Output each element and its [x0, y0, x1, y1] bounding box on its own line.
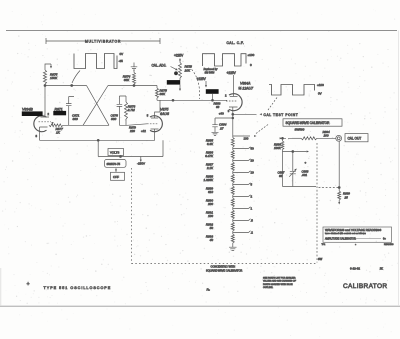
resistor R892 50	[206, 221, 234, 233]
svg-text:100: 100	[324, 134, 329, 138]
svg-text:0V: 0V	[120, 52, 124, 56]
wire left plate rail	[45, 86, 87, 112]
capacitor C888 variable	[278, 152, 309, 187]
svg-text:READING: READING	[384, 243, 394, 246]
cross-coupling diagonal 2	[83, 86, 108, 126]
+225V plate supply V884	[227, 71, 237, 97]
svg-text:40: 40	[210, 238, 214, 242]
svg-text:20: 20	[251, 159, 255, 163]
svg-text:33K: 33K	[160, 92, 166, 96]
resistor R888 1.025K	[203, 173, 234, 185]
svg-text:OUTLINE.: OUTLINE.	[263, 287, 273, 289]
svg-text:SW: SW	[318, 257, 323, 261]
svg-text:6AU6: 6AU6	[160, 112, 169, 116]
tap .2	[233, 231, 254, 235]
+225V supply node	[197, 77, 208, 88]
resistor R875 150K	[43, 64, 58, 86]
svg-text:5: 5	[251, 183, 253, 187]
svg-text:.5: .5	[251, 219, 254, 223]
svg-text:68: 68	[216, 105, 220, 109]
resistor R889 610	[206, 185, 234, 197]
resistor R886 6.47K	[205, 149, 234, 161]
tube V875 6AU6	[147, 100, 163, 140]
svg-text:2.1K: 2.1K	[206, 166, 214, 170]
svg-text:330: 330	[111, 117, 116, 121]
svg-text:6-13-62: 6-13-62	[350, 267, 360, 271]
resistor R878 33K	[156, 86, 168, 101]
divider top wire	[232, 114, 234, 136]
svg-text:5: 5	[147, 113, 149, 117]
dashed leader W3	[268, 98, 277, 111]
svg-text:+100: +100	[248, 53, 255, 57]
svg-text:TP1: TP1	[322, 244, 327, 246]
svg-text:6.3K: 6.3K	[207, 142, 214, 146]
svg-text:SQUARE-WAVE CALIBRATOR: SQUARE-WAVE CALIBRATOR	[206, 268, 242, 272]
OFF box	[111, 168, 125, 180]
wire right plate rail	[108, 85, 157, 87]
svg-text:+: +	[355, 244, 357, 246]
svg-text:MULTIVIBRATOR: MULTIVIBRATOR	[85, 40, 121, 44]
redaction bar A	[22, 111, 43, 116]
svg-text:50: 50	[210, 226, 214, 230]
svg-text:27: 27	[219, 126, 224, 130]
svg-text:1: 1	[251, 207, 253, 211]
svg-text:50: 50	[251, 147, 255, 151]
junction dots	[44, 85, 135, 87]
svg-text:-85: -85	[119, 59, 124, 63]
svg-text:25: 25	[344, 195, 349, 199]
dashed ganged linkage vertical	[131, 168, 133, 264]
wire with wiper arrow	[283, 150, 310, 152]
svg-text:V884A: V884A	[240, 82, 251, 86]
svg-text:8: 8	[36, 134, 38, 138]
ground near W1	[131, 63, 138, 71]
svg-text:+225V: +225V	[174, 54, 184, 58]
dashed shield right edge	[316, 143, 318, 263]
svg-text:+225V: +225V	[227, 71, 237, 75]
svg-text:V834B: V834B	[22, 108, 33, 112]
SW870-75 box	[105, 160, 127, 168]
resistor R894 100	[292, 130, 336, 140]
resistor R891 100	[206, 209, 234, 221]
leader arrow from W1 to wire	[72, 71, 80, 87]
svg-text:100K: 100K	[274, 146, 282, 150]
svg-text:CONCENTRIC WITH: CONCENTRIC WITH	[211, 265, 236, 269]
svg-text:OFF: OFF	[113, 175, 119, 179]
shield bottom wire	[283, 186, 317, 188]
svg-text:0+: 0+	[383, 237, 386, 240]
svg-text:+225V: +225V	[197, 77, 207, 81]
tap 1	[233, 207, 253, 211]
potentiometer R876 10K CAL ADJ	[152, 63, 193, 79]
svg-text:220: 220	[129, 129, 135, 133]
waveform W3 cal test	[269, 83, 324, 95]
svg-text:SW890: SW890	[295, 127, 305, 131]
svg-text:PARTS MARKED WITH BLUE: PARTS MARKED WITH BLUE	[263, 283, 293, 286]
svg-text:CAL. C.F.: CAL. C.F.	[227, 41, 245, 45]
svg-text:.2: .2	[251, 231, 254, 235]
tap 50	[233, 147, 254, 151]
svg-text:+: +	[305, 160, 307, 164]
top page rule	[6, 30, 397, 32]
svg-text:SEE PARTS LIST FOR EARLIER: SEE PARTS LIST FOR EARLIER	[263, 276, 296, 279]
svg-text:SN 5454: SN 5454	[205, 71, 215, 74]
svg-text:+90: +90	[219, 112, 224, 116]
wire multivib output to V884 grid	[157, 99, 227, 101]
+225V supply for pot	[174, 54, 184, 63]
resistor R896 100K	[274, 137, 284, 151]
tube V834B	[34, 111, 54, 140]
multivibrator bracket	[46, 38, 160, 44]
svg-text:CALIBRATOR: CALIBRATOR	[343, 283, 387, 290]
svg-text:68K: 68K	[124, 78, 130, 82]
svg-text:2.7M: 2.7M	[127, 108, 135, 112]
cathode rail drop	[97, 140, 99, 156]
svg-text:100: 100	[244, 137, 249, 141]
svg-text:2: 2	[251, 195, 253, 199]
resistor R877 1K	[49, 124, 63, 134]
svg-text:½ 12AU7: ½ 12AU7	[239, 86, 255, 90]
switch label box SQUARE-WAVE CALIBRATOR	[283, 119, 342, 126]
redaction bar E (R882)	[206, 89, 219, 100]
tap 2	[233, 195, 253, 199]
svg-text:2: 2	[48, 112, 50, 116]
svg-text:2: 2	[225, 93, 227, 97]
redaction bar B	[53, 111, 66, 115]
svg-text:1.025K: 1.025K	[203, 178, 214, 182]
dashed ganged linkage horizontal	[132, 263, 318, 265]
tube V884A	[225, 93, 242, 116]
left page edge	[0, 268, 2, 306]
resistor R885 6.3K	[206, 136, 234, 149]
tap 100 with wiper arrow	[233, 135, 257, 141]
svg-text:+100: +100	[317, 83, 324, 87]
dashed linkage wiper to SW890	[256, 124, 269, 134]
-150V supply arrow	[137, 157, 145, 166]
svg-text:TYPE 551 OSCILLOSCOPE: TYPE 551 OSCILLOSCOPE	[44, 286, 112, 290]
svg-text:WAVEFORMS and VOLTAGE READINGS: WAVEFORMS and VOLTAGE READINGS	[325, 228, 381, 232]
cathode rail wire	[40, 139, 155, 141]
waveform note box	[322, 227, 394, 246]
wire to CAL TEST POINT	[233, 113, 262, 115]
CAL OUT box	[345, 134, 368, 142]
svg-text:SW870-75: SW870-75	[107, 162, 121, 166]
resistor R874 68K	[123, 71, 136, 86]
svg-text:150K: 150K	[50, 76, 58, 80]
svg-text:0: 0	[250, 63, 252, 67]
cross-coupling diagonal 1	[87, 86, 110, 126]
resistor R887 2.1K	[206, 161, 234, 173]
svg-text:VOLTS: VOLTS	[110, 151, 119, 155]
svg-text:CAL OUT: CAL OUT	[348, 136, 362, 140]
svg-text:100: 100	[208, 214, 213, 218]
svg-text:610: 610	[208, 190, 213, 194]
svg-text:6.47K: 6.47K	[205, 154, 214, 158]
svg-text:10K: 10K	[185, 68, 191, 72]
right page edge	[398, 31, 400, 307]
waveform W1 multivibrator output	[74, 52, 123, 69]
capacitor C871 330	[66, 97, 80, 126]
svg-text:0V: 0V	[318, 92, 322, 96]
svg-text:+12: +12	[141, 129, 146, 133]
grid bus wire	[63, 124, 147, 126]
svg-text:VALUES AND S/N CHANGES OF: VALUES AND S/N CHANGES OF	[263, 280, 297, 283]
svg-text:SQUARE-WAVE CALIBRATOR: SQUARE-WAVE CALIBRATOR	[286, 121, 331, 125]
tap 20	[233, 159, 254, 163]
VOLTS box	[108, 149, 124, 156]
svg-text:-150V: -150V	[137, 162, 145, 166]
tap 5	[233, 183, 253, 187]
svg-text:7: 7	[52, 121, 54, 125]
bottom page rule	[0, 305, 400, 307]
svg-text:200: 200	[207, 202, 213, 206]
svg-text:CAL. ADJ.: CAL. ADJ.	[152, 63, 167, 67]
svg-text:1K: 1K	[56, 130, 61, 134]
divider ground	[229, 245, 237, 251]
switch contacts	[280, 137, 292, 139]
svg-text:10: 10	[251, 171, 255, 175]
svg-text:JK: JK	[380, 266, 383, 270]
resistor R890 200	[206, 197, 234, 209]
svg-text:330: 330	[73, 117, 78, 121]
waveform W2 cal cf	[203, 53, 255, 67]
svg-text:Rₙ: Rₙ	[207, 288, 211, 292]
switch wire	[98, 140, 163, 156]
connector jack CAL OUT	[336, 135, 342, 141]
resistor R899	[338, 141, 351, 204]
svg-text:68: 68	[279, 174, 283, 178]
tap 10	[233, 171, 254, 175]
dashed shield bottom link	[319, 187, 339, 189]
svg-text:were obtained with controls se: were obtained with controls set as follo…	[325, 232, 366, 235]
tap .5	[233, 219, 254, 223]
parts list note	[263, 276, 297, 289]
svg-text:+: +	[27, 282, 30, 288]
svg-text:R871: R871	[55, 107, 63, 111]
svg-text:AMPLITUDE CALIBRATOR: AMPLITUDE CALIBRATOR	[325, 237, 356, 240]
resistor R873 2.7M	[125, 96, 136, 125]
resistor R893 40	[206, 233, 234, 245]
dashed leader curve	[189, 67, 200, 100]
capacitor C884 27	[212, 118, 233, 136]
capacitor C876 330	[111, 96, 127, 125]
redaction bar D (R880)	[167, 78, 181, 91]
svg-text:.001: .001	[302, 173, 308, 177]
svg-text:CAL TEST POINT: CAL TEST POINT	[264, 113, 299, 117]
